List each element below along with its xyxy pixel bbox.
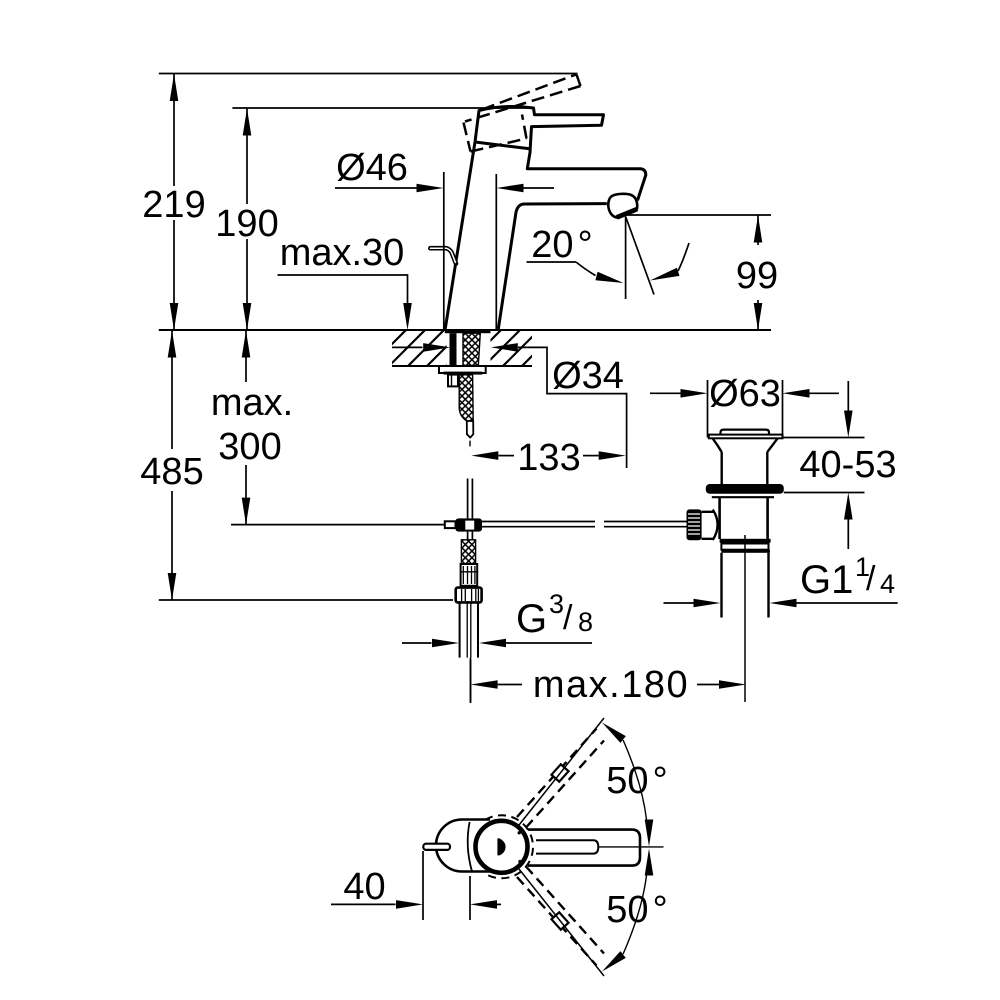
- plan pull rod: [423, 844, 450, 850]
- svg-text:max.: max.: [211, 382, 293, 424]
- plan detail dots: [518, 831, 521, 834]
- braided supply hose upper: [459, 375, 473, 421]
- svg-text:G1: G1: [800, 558, 853, 602]
- dimension 40 arrows: [331, 903, 396, 905]
- dimension G3/8 arrows: [402, 642, 432, 644]
- dimension 40 extension lines: [423, 851, 470, 920]
- svg-text:G: G: [516, 597, 547, 641]
- plan centerline right: [598, 846, 664, 848]
- knob stem: [702, 512, 714, 539]
- dashed handle block right edge: [522, 115, 527, 139]
- dimension 99 vertical line: [757, 215, 759, 330]
- dashed handle block bottom edge: [471, 139, 527, 152]
- faucet body left edge: [445, 142, 475, 329]
- drain body lower band: [721, 544, 768, 550]
- counter slab hatching: [351, 330, 558, 366]
- lower 50 degree line: [519, 869, 604, 976]
- tee junction block: [445, 521, 456, 528]
- G3/8 connection nut: [456, 588, 482, 603]
- dimension 40-53 arrows: [847, 381, 849, 411]
- drain flange rim: [709, 435, 783, 439]
- dimension 219 extension line top: [159, 73, 578, 75]
- svg-text:Ø63: Ø63: [709, 373, 781, 415]
- svg-text:max.30: max.30: [280, 232, 405, 274]
- drain body bottom bar: [720, 539, 771, 543]
- svg-text:40-53: 40-53: [799, 444, 896, 486]
- aerator face thick edge: [617, 209, 637, 217]
- svg-text:8: 8: [578, 607, 593, 637]
- upper 50 degree line: [519, 718, 604, 825]
- spout underside and body right edge: [498, 204, 607, 329]
- dimension max.180 arrows: [471, 680, 498, 689]
- plan body stadium: [436, 820, 490, 872]
- svg-text:Ø34: Ø34: [552, 355, 624, 397]
- dashed lever position lower: [517, 867, 604, 966]
- mounting flange under deck: [439, 366, 486, 373]
- hose connector: [461, 564, 478, 586]
- svg-text:300: 300: [218, 426, 281, 468]
- hose break centerline: [469, 441, 471, 447]
- svg-text:99: 99: [736, 255, 778, 297]
- plan body end cap arc: [468, 822, 472, 872]
- mounting nut: [448, 375, 458, 387]
- drain plug cap: [721, 430, 770, 435]
- dimension 190 arrows: [243, 109, 252, 136]
- svg-text:20°: 20°: [531, 224, 592, 266]
- dashed lever end cap: [577, 75, 581, 87]
- dashed lever position upper: [517, 729, 604, 828]
- plan lever arm: [528, 830, 640, 866]
- dimension 485 arrows: [168, 331, 177, 358]
- dimension 40-53 reference lines: [783, 438, 865, 493]
- plan lever slot: [536, 840, 598, 853]
- dimension max.30 leader: [278, 275, 408, 305]
- drain flange flare: [713, 438, 778, 452]
- threaded shank in hole: [463, 333, 480, 365]
- supply pipe upper: [468, 479, 473, 519]
- dimension Ø34 arrows: [392, 346, 423, 348]
- angle 20 degree leader underline: [527, 261, 577, 263]
- dashed open lever arm bottom edge: [465, 86, 581, 122]
- svg-text:40: 40: [343, 866, 385, 908]
- drain body chamfer: [712, 496, 774, 498]
- angle 20 degree arc arrows: [576, 262, 596, 276]
- dimension Ø63 extension lines: [708, 380, 783, 438]
- dimension 99 extension line: [627, 214, 772, 216]
- faucet handle block and spout outline: [475, 106, 646, 200]
- svg-text:/: /: [563, 599, 573, 637]
- dashed open lever arm top edge: [464, 75, 581, 152]
- dimension 190 vertical line: [246, 108, 248, 330]
- dimension G1 1/4 arrows: [664, 602, 694, 604]
- svg-text:4: 4: [880, 569, 895, 599]
- svg-text:50°: 50°: [606, 889, 667, 931]
- upper lever sleeve: [551, 764, 568, 781]
- supply hose tube tip: [467, 421, 474, 438]
- dimension max.180 extension line left: [470, 660, 472, 702]
- svg-text:190: 190: [215, 203, 278, 245]
- svg-text:50°: 50°: [606, 760, 667, 802]
- svg-text:Ø46: Ø46: [336, 147, 408, 189]
- plan dashed swivel circle: [485, 815, 533, 878]
- svg-text:133: 133: [517, 437, 580, 479]
- drain neck: [722, 452, 768, 484]
- aerator blob: [608, 194, 637, 218]
- dimension Ø63 arrows: [650, 392, 681, 394]
- dimension Ø46 arrows: [335, 187, 417, 189]
- svg-text:485: 485: [140, 451, 203, 493]
- faucet base joint bar: [445, 329, 491, 333]
- supply pipe below junction: [468, 532, 473, 540]
- dimension 133 arrows: [471, 451, 498, 460]
- adjuster knob knurled: [687, 509, 702, 540]
- drain seal ring: [706, 484, 784, 494]
- lower lever sleeve: [551, 912, 568, 929]
- counter slab bottom line: [392, 365, 532, 367]
- svg-text:max.180: max.180: [533, 664, 689, 706]
- deck line: [159, 329, 771, 331]
- dimension 219 vertical line: [173, 74, 175, 331]
- plan keyway mark: [497, 838, 505, 855]
- braided hose lower: [461, 540, 475, 564]
- dimension 190 extension line: [232, 107, 533, 109]
- upper 50 degree arc and arrows: [623, 740, 646, 820]
- dimension 485 vertical line: [171, 330, 173, 600]
- dimension 219 arrows: [170, 74, 179, 101]
- svg-text:3: 3: [549, 589, 564, 619]
- dimension 485 bottom line: [159, 599, 453, 601]
- angle 20 degree vertex lines: [625, 217, 627, 300]
- drain centerline: [744, 535, 746, 702]
- dimension max.300 arrows: [242, 331, 251, 358]
- drain tailpipe: [722, 553, 769, 618]
- drain valve body: [720, 497, 768, 539]
- dimension Ø46 extension lines: [444, 172, 497, 329]
- dimension max.300 vertical line: [245, 330, 247, 525]
- dimension Ø34 leader: [518, 347, 627, 468]
- handle block bottom edge: [475, 142, 530, 149]
- plan handle cap circle: [476, 821, 528, 873]
- flange clamp bar: [444, 372, 483, 375]
- dimension max.300 bottom extension line: [231, 524, 445, 526]
- pull rod hook: [430, 248, 456, 263]
- supply pipe bottom: [460, 602, 478, 657]
- supply pipe centerline extension: [470, 658, 472, 703]
- dashed handle block left edge: [464, 123, 471, 152]
- svg-text:/: /: [866, 560, 876, 598]
- dimension 99 arrows: [754, 216, 763, 243]
- svg-text:219: 219: [142, 184, 205, 226]
- fixing bolt in hole: [450, 333, 457, 365]
- lower 50 degree arc and arrows: [623, 876, 646, 955]
- pop-up rod horizontal: [482, 522, 687, 527]
